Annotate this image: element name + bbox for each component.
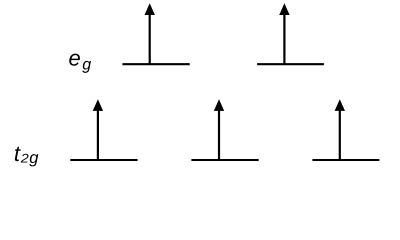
electron up-arrow eg2 xyxy=(279,3,289,64)
label e_g xyxy=(69,46,92,74)
electron up-arrow t2g1 xyxy=(93,99,103,160)
t2g orbital level 1 line xyxy=(70,159,137,161)
t2g orbital level 3 line xyxy=(312,159,379,161)
eg orbital level 1 line xyxy=(122,63,189,65)
electron up-arrow t2g2 xyxy=(214,99,224,160)
svg-text:g: g xyxy=(29,149,39,167)
electron up-arrow t2g3 xyxy=(335,99,345,160)
t2g orbital level 2 line xyxy=(191,159,258,161)
svg-text:e: e xyxy=(69,46,81,71)
eg orbital level 2 line xyxy=(257,63,324,65)
svg-text:2: 2 xyxy=(20,151,29,165)
electron up-arrow eg1 xyxy=(145,3,155,64)
svg-text:g: g xyxy=(82,57,91,74)
label t_2g xyxy=(14,141,39,167)
